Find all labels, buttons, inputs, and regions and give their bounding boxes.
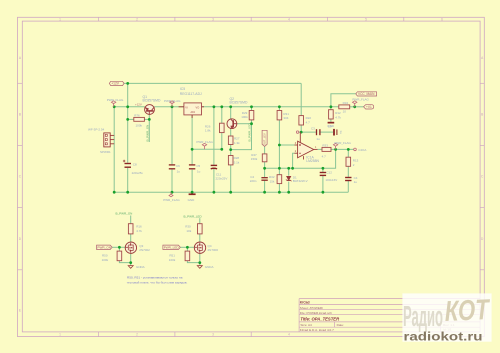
- svg-text:R16: R16: [136, 224, 142, 228]
- svg-text:radiokot.ru: radiokot.ru: [404, 329, 483, 343]
- svg-text:GND: GND: [327, 124, 335, 128]
- regulator IC5 box: [179, 103, 204, 118]
- wire Q2 collector to R27: [230, 128, 232, 136]
- resistor R50: [117, 251, 122, 261]
- ground symbol GND below R12: [328, 122, 335, 124]
- svg-text:Sheet: /POWER/: Sheet: /POWER/: [300, 306, 323, 310]
- svg-text:100k: 100k: [169, 258, 176, 262]
- svg-text:PWR_ON: PWR_ON: [97, 246, 111, 250]
- svg-text:PWR_FLAG: PWR_FLAG: [196, 140, 213, 144]
- wire R76 right lead to Q1 base: [144, 118, 149, 120]
- svg-text:PWR_FLAG: PWR_FLAG: [107, 98, 124, 102]
- svg-text:PWR_LED: PWR_LED: [164, 246, 180, 250]
- svg-text:WF-3P-2.54: WF-3P-2.54: [88, 128, 105, 132]
- wire D1 bottom to ground rail: [288, 182, 290, 193]
- resistor R32: [277, 175, 282, 184]
- wire Q1 base net stub down (B_PWR_ON): [148, 114, 150, 142]
- svg-text:+V1: +V1: [366, 105, 372, 109]
- wire VO rail from R34 to +V1 label: [350, 106, 364, 108]
- svg-text:2N7002: 2N7002: [139, 248, 150, 252]
- power flag at +12V feed line: [111, 101, 115, 107]
- wire PWR_ON label to Q3 gate: [112, 246, 125, 248]
- svg-text:2: 2: [136, 333, 138, 337]
- wire B_PWR_ON label to R16: [130, 216, 132, 224]
- frame column ticks: [99, 17, 404, 336]
- resistor R27: [228, 136, 233, 145]
- svg-text:3: 3: [212, 18, 214, 22]
- svg-text:1u: 1u: [339, 130, 343, 134]
- svg-text:BC857SMD: BC857SMD: [230, 100, 248, 104]
- wire +12V feed line left of Q1: [114, 106, 145, 108]
- power flag at VCC_MAIN rail: [353, 101, 357, 107]
- svg-text:C4OA: C4OA: [358, 148, 366, 152]
- wire op-amp output to R33: [318, 148, 323, 150]
- wire R29 bottom lead down (B_PWR_LED stub): [231, 120, 252, 150]
- svg-text:B_PWR_ON: B_PWR_ON: [116, 212, 133, 216]
- wire R50 top lead from gate wire: [118, 247, 120, 251]
- svg-text:B_PWR_LED: B_PWR_LED: [248, 122, 252, 141]
- svg-text:BC857SMD: BC857SMD: [143, 99, 161, 103]
- wire R30 bottom to Q4 drain: [199, 234, 201, 243]
- svg-text:Радио: Радио: [403, 301, 443, 333]
- wire C11 drop from rail: [213, 107, 215, 165]
- svg-text:2: 2: [136, 18, 138, 22]
- svg-text:4.7k: 4.7k: [335, 115, 341, 119]
- svg-text:R50: R50: [102, 253, 108, 257]
- ground symbol GNDA below Q4: [197, 266, 202, 269]
- net label PWR_ON: [97, 245, 113, 250]
- resistor R47: [262, 154, 267, 162]
- title block: [299, 299, 480, 332]
- wire R51 bottom joining Q4 source node: [187, 261, 199, 263]
- wire R31 top lead: [278, 107, 280, 111]
- svg-text:PWR_FLAG: PWR_FLAG: [163, 198, 180, 202]
- wire C2 bottom to ground rail: [264, 181, 266, 193]
- diode D1: [286, 177, 292, 182]
- resistor R16: [128, 224, 133, 234]
- svg-text:1: 1: [59, 333, 61, 337]
- svg-text:R30: R30: [185, 224, 191, 228]
- transistor Q2: [227, 119, 237, 129]
- net label VCC_MAIN: [356, 92, 377, 96]
- capacitor C9: [334, 129, 337, 136]
- wire R33 to output pin C4OA: [331, 148, 354, 150]
- svg-text:10k: 10k: [186, 229, 191, 233]
- svg-text:IC5: IC5: [180, 87, 185, 91]
- svg-text:OUT_LEV: OUT_LEV: [263, 133, 267, 145]
- wire op-amp minus input down to feedback net: [293, 153, 295, 168]
- svg-text:тестовой плате, что бы был сли: тестовой плате, что бы был слив зарядов.: [127, 280, 188, 284]
- wire ground rail: [114, 191, 348, 193]
- wire C3 to C9: [321, 131, 334, 133]
- svg-text:4: 4: [288, 18, 290, 22]
- svg-text:File: POWER.kicad.sch: File: POWER.kicad.sch: [300, 311, 332, 315]
- svg-text:R76: R76: [134, 114, 140, 118]
- frame row ticks: [18, 83, 485, 269]
- wire R13 bottom to C4: [347, 166, 349, 177]
- wire IC5 ADJ down to C5: [191, 115, 193, 164]
- net label +12V: [109, 81, 124, 85]
- wire C12 top lead: [322, 168, 324, 172]
- resistor R31: [277, 111, 282, 120]
- wire R26 bottom lead: [221, 133, 223, 150]
- watermark background box: [402, 293, 491, 341]
- svg-text:KiCad: KiCad: [300, 300, 310, 304]
- op-amp IC1A: [294, 132, 317, 159]
- svg-text:GNDA: GNDA: [205, 265, 214, 269]
- wire C6 drop from rail: [171, 107, 173, 164]
- wire R32 bottom to ground rail: [278, 184, 280, 193]
- resistor R22: [299, 116, 304, 125]
- wire C3 node horizontal: [299, 131, 316, 133]
- svg-text:100x16V: 100x16V: [325, 178, 337, 182]
- svg-text:5.1k: 5.1k: [234, 161, 240, 165]
- wire R31 bottom to R32 top through taps: [278, 120, 280, 175]
- svg-text:BAT42W-V: BAT42W-V: [293, 179, 308, 183]
- svg-text:C8: C8: [133, 162, 137, 166]
- svg-text:220n: 220n: [250, 179, 257, 183]
- connector SPWR1 WF-3P-2.54: [104, 133, 114, 147]
- svg-text:220x25V: 220x25V: [216, 177, 228, 181]
- svg-text:2N7000: 2N7000: [208, 248, 219, 252]
- svg-text:6: 6: [441, 18, 443, 22]
- resistor R51: [185, 251, 190, 261]
- wire R28 bottom to ground rail: [230, 165, 232, 192]
- svg-text:R33: R33: [322, 143, 328, 147]
- svg-text:220x25v: 220x25v: [132, 171, 144, 175]
- wire D1 top lead: [288, 168, 290, 175]
- wire R22 column lower lead to C3 node: [300, 125, 302, 132]
- svg-text:150k: 150k: [251, 157, 258, 161]
- svg-text:ADJ: ADJ: [191, 111, 196, 114]
- svg-text:PWR_FLAG: PWR_FLAG: [334, 141, 351, 145]
- svg-text:КОТ: КОТ: [444, 293, 491, 328]
- wire R76 left lead: [128, 118, 134, 120]
- svg-text:1u: 1u: [316, 137, 320, 141]
- svg-text:1u: 1u: [354, 180, 358, 184]
- name/value texts: [88, 87, 370, 269]
- svg-text:5: 5: [365, 18, 367, 22]
- wire Q1 emitter to IC5 VI: [154, 106, 184, 108]
- svg-text:15k: 15k: [270, 180, 275, 184]
- wire C11 bottom to ground rail: [213, 169, 215, 193]
- capacitor C3: [317, 129, 320, 135]
- svg-text:+12V: +12V: [111, 82, 120, 86]
- svg-text:1u: 1u: [197, 169, 201, 173]
- net label PWR_LED: [163, 245, 180, 250]
- wire Q3 source down to GNDA: [130, 253, 132, 266]
- svg-text:GNDA: GNDA: [136, 265, 145, 269]
- ground symbol GND at C5 column: [189, 193, 196, 195]
- svg-text:334: 334: [283, 116, 288, 120]
- wire R12 bottom to GND symbol: [330, 119, 332, 122]
- svg-text:R29: R29: [242, 111, 248, 115]
- wire +12V top rail from label to R22 column: [124, 82, 301, 84]
- svg-text:B_PWR_ON: B_PWR_ON: [145, 125, 149, 142]
- svg-text:LM258N: LM258N: [306, 159, 319, 163]
- wire Q4 source down to GNDA: [199, 253, 201, 266]
- resistor R29: [249, 111, 254, 120]
- svg-text:4.7k: 4.7k: [136, 229, 142, 233]
- svg-text:PWR_FLAG: PWR_FLAG: [352, 98, 369, 102]
- power flag at VI rail (x=172): [170, 101, 174, 107]
- svg-text:1u: 1u: [177, 169, 181, 173]
- transistor Q4 (MOSFET): [194, 242, 205, 253]
- svg-text:C12: C12: [326, 171, 332, 175]
- op-amp pin numbers: [295, 142, 317, 153]
- wire R16 bottom to Q3 drain: [130, 234, 132, 243]
- svg-text:GND: GND: [188, 198, 196, 202]
- wire C8 bottom to ground rail: [127, 168, 129, 192]
- svg-text:Date:: Date:: [337, 323, 345, 327]
- svg-text:10: 10: [343, 110, 347, 114]
- wire R22 column upper lead: [300, 83, 302, 115]
- power flag below ground rail: [169, 192, 173, 197]
- svg-text:C6: C6: [176, 164, 180, 168]
- svg-text:B: B: [481, 113, 483, 117]
- capacitor C12 (polarized): [320, 173, 326, 176]
- power flag at ADJ node: [202, 143, 206, 149]
- capacitor C2: [261, 178, 267, 181]
- wire C5 bottom to ground rail: [191, 170, 193, 193]
- wire R51 top lead from gate wire: [186, 247, 188, 251]
- wire R12 top lead: [330, 107, 332, 110]
- svg-text:1.3k: 1.3k: [234, 141, 240, 145]
- svg-text:B: B: [19, 113, 21, 117]
- capacitor C4 (polarized): [345, 178, 351, 181]
- wire R29 top lead: [251, 107, 253, 111]
- capacitor C5: [189, 165, 195, 169]
- wire VCC_MAIN label to rail junction: [331, 94, 356, 107]
- svg-text:KiCad E.D.A. kicad 4.0.7: KiCad E.D.A. kicad 4.0.7: [300, 328, 334, 332]
- wire feedback net horizontal and rise to output: [265, 149, 336, 168]
- svg-text:C3: C3: [311, 126, 315, 130]
- transistor Q3 (MOSFET): [125, 242, 136, 253]
- svg-text:E: E: [19, 308, 21, 312]
- svg-text:REG1117-ADJ: REG1117-ADJ: [180, 92, 202, 96]
- resistor R34: [339, 105, 350, 109]
- svg-text:1: 1: [59, 18, 61, 22]
- svg-text:4: 4: [288, 333, 290, 337]
- net label OUT_LEVEL (vertical): [262, 130, 267, 146]
- wire left column down to connector and ground rail: [113, 107, 115, 192]
- resistor R76 (Q1 base): [134, 117, 145, 121]
- resistor R13: [346, 157, 351, 166]
- svg-text:R34: R34: [343, 101, 349, 105]
- net label +V1: [364, 105, 374, 109]
- ground symbol GNDA below Q3: [128, 266, 133, 269]
- wire R27 bottom to R28 top with junction: [230, 145, 232, 156]
- svg-text:4.7: 4.7: [306, 120, 311, 124]
- wire R26 top lead: [221, 107, 223, 123]
- resistor R26: [220, 123, 225, 132]
- svg-text:SPWR1: SPWR1: [100, 150, 111, 154]
- svg-text:1.8k: 1.8k: [205, 129, 211, 133]
- svg-text:C5: C5: [196, 164, 200, 168]
- wire R13 top lead from output node: [347, 149, 349, 157]
- resistor R30: [198, 224, 203, 234]
- wire C6 bottom to ground rail: [171, 170, 173, 193]
- pin C4OA open circle: [354, 148, 367, 152]
- pin open circle at op-amp plus feed: [296, 131, 298, 133]
- frame column numbers: [59, 18, 443, 337]
- resistor R28: [228, 156, 233, 165]
- svg-text:4.7: 4.7: [322, 154, 327, 158]
- wire R47 bottom to C2: [264, 162, 266, 177]
- svg-text:100k: 100k: [241, 115, 248, 119]
- svg-text:100k: 100k: [102, 258, 109, 262]
- svg-text:VCC_MAIN: VCC_MAIN: [358, 92, 375, 96]
- capacitor C8 (polarized): [123, 160, 131, 167]
- wire ADJ node horizontal to R26: [192, 148, 222, 150]
- svg-text:3: 3: [212, 333, 214, 337]
- wire VO rail from IC5 to R34: [202, 106, 339, 108]
- svg-text:B_PWR_LED: B_PWR_LED: [184, 214, 203, 218]
- wire Q2 emitter to rail: [230, 107, 232, 119]
- resistor R33: [322, 147, 331, 151]
- wire C4 bottom rise from ground rail: [347, 181, 349, 192]
- svg-text:VO: VO: [196, 106, 200, 110]
- svg-text:R50, R51 - устанавливаются тол: R50, R51 - устанавливаются только на: [127, 276, 183, 280]
- svg-text:R51: R51: [169, 253, 175, 257]
- wire Q2 base to R29 column: [237, 123, 251, 125]
- wire divider tap to op-amp plus input: [279, 144, 294, 146]
- wire R50 bottom joining Q3 source node: [119, 261, 130, 263]
- resistor R12: [329, 110, 334, 119]
- svg-text:VI: VI: [185, 106, 188, 110]
- frame row letters: [19, 56, 484, 312]
- capacitor C6: [169, 165, 175, 169]
- transistor Q1: [145, 105, 155, 115]
- svg-text:PWR_FLAG: PWR_FLAG: [164, 99, 181, 103]
- wire C12 bottom to ground rail: [322, 176, 324, 192]
- svg-text:100k: 100k: [136, 123, 143, 127]
- power flag at output node: [333, 143, 337, 149]
- wire OUT_LEVEL label stub to R47: [264, 146, 266, 154]
- svg-text:Title: OPA_TESTER: Title: OPA_TESTER: [300, 316, 339, 321]
- svg-text:+12V: +12V: [135, 103, 142, 107]
- wire +12V drop at x=127.7 to C8: [127, 83, 129, 162]
- capacitor C11 (polarized): [211, 165, 217, 169]
- wire B_PWR_LED label to R30: [199, 218, 201, 224]
- note text about R50 R51: [127, 276, 188, 285]
- wire PWR_LED label to Q4 gate: [180, 246, 194, 248]
- svg-text:Size: A4: Size: A4: [300, 323, 312, 327]
